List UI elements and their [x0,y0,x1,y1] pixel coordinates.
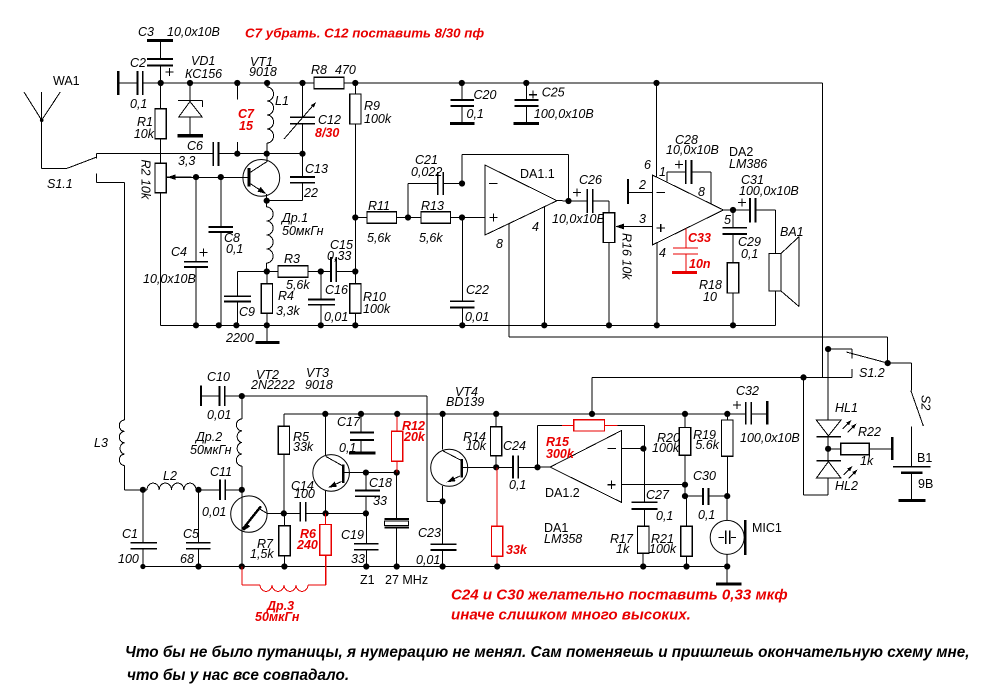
svg-text:100: 100 [294,487,315,501]
svg-text:Что бы не было путаницы, я нум: Что бы не было путаницы, я нумерацию не … [125,644,970,661]
capacitor C25 [525,83,527,122]
potentiometer R16 10k [608,201,610,325]
svg-text:1k: 1k [860,454,874,468]
svg-text:22: 22 [303,186,318,200]
capacitor C23 [442,501,444,566]
junction [264,151,270,157]
junction [653,80,659,86]
svg-text:100k: 100k [652,441,680,455]
junction [352,80,358,86]
wire S2 feed [888,363,912,390]
svg-text:B1: B1 [917,451,932,465]
junction [523,80,529,86]
resistor R9 100k [354,83,356,272]
capacitor C15 0,33 [331,257,336,282]
inductor Dr3 red [242,555,326,591]
junction [640,563,646,569]
svg-text:MIC1: MIC1 [752,521,782,535]
svg-text:VD1: VD1 [191,54,215,68]
junction [352,268,358,274]
junction [264,80,270,86]
LED HL2 arrows [844,468,857,479]
capacitor C24 [496,466,537,468]
svg-text:C12: C12 [318,113,341,127]
svg-text:0,33: 0,33 [327,249,351,263]
capacitor C5 68 [198,490,200,567]
resistor R21 100k [686,496,688,566]
resistor R6 240 red [325,513,327,584]
svg-text:R9: R9 [364,99,380,113]
switch S2 lever [911,390,924,426]
transistor VT2 2N2222 [231,496,267,532]
svg-text:DA1.2: DA1.2 [545,486,580,500]
capacitor C8 [220,177,222,325]
svg-text:иначе слишком много высоких.: иначе слишком много высоких. [451,607,691,624]
capacitor C22 [461,218,463,326]
junction [193,174,199,180]
junction [724,563,730,569]
svg-text:8: 8 [698,185,705,199]
resistor R15 300k red [562,425,617,427]
wire R11 input row y=217 [355,217,485,219]
svg-text:0,01: 0,01 [207,408,231,422]
svg-text:5,6k: 5,6k [367,231,391,245]
svg-text:4: 4 [532,220,539,234]
resistor R7 1,5k [283,513,285,566]
svg-text:10k: 10k [466,439,487,453]
svg-text:C13: C13 [305,162,328,176]
capacitor C31 [750,198,756,223]
junction [589,411,595,417]
svg-text:BA1: BA1 [780,225,804,239]
svg-text:C25: C25 [542,86,565,100]
junction [394,411,400,417]
resistor R17 1k [638,526,649,553]
svg-text:0,1: 0,1 [130,97,147,111]
svg-text:9В: 9В [918,477,933,491]
junction [440,411,446,417]
wire R15 feedback loop [538,426,645,503]
junction [459,180,465,186]
svg-text:C32: C32 [736,384,759,398]
svg-text:HL2: HL2 [835,479,858,493]
resistor R20 100k [684,414,686,485]
svg-text:C6: C6 [187,139,203,153]
junction [440,563,446,569]
junction [239,563,245,569]
capacitor C14 100 [300,502,305,521]
svg-text:3,3: 3,3 [178,154,195,168]
junction [363,470,369,476]
svg-text:что бы у нас все совпадало.: что бы у нас все совпадало. [127,667,349,684]
svg-text:8: 8 [496,237,503,251]
junction [724,411,730,417]
speaker BA1 [769,254,781,292]
capacitor C3 [147,39,173,42]
svg-text:27 MHz: 27 MHz [385,573,428,587]
svg-text:C2: C2 [130,56,146,70]
junction [234,80,240,86]
junction [640,446,646,452]
microphone MIC1 [710,520,744,554]
svg-text:10,0x10В: 10,0x10В [666,143,719,157]
svg-text:3: 3 [639,212,646,226]
junction [565,198,571,204]
svg-text:C24: C24 [503,439,526,453]
inductor Dr1 choke [267,201,273,272]
svg-text:9018: 9018 [249,65,277,79]
resistor R8 470 [314,77,344,88]
junction [682,411,688,417]
svg-text:R22: R22 [858,425,881,439]
svg-text:50мкГн: 50мкГн [190,443,232,457]
wire R2 wiper to VT1 base [167,176,230,178]
variable capacitor C12 [302,83,304,154]
svg-text:9018: 9018 [305,378,333,392]
junction [158,80,164,86]
transistor VT1 9018 [243,160,280,197]
svg-text:10,0x10В: 10,0x10В [552,212,605,226]
junction [825,346,831,352]
svg-text:DA1.1: DA1.1 [520,167,555,181]
svg-text:S1.1: S1.1 [47,177,73,191]
wire emitter row y=513 [278,512,366,514]
inductor L2 [143,483,199,490]
wire top rail y=83 [161,83,823,377]
inductor L1 [267,83,273,154]
wire y=271 row [267,271,356,273]
svg-text:10,0x10В: 10,0x10В [167,25,220,39]
capacitor C32 [727,413,746,415]
svg-text:КС156: КС156 [185,67,222,81]
capacitor C27 [644,509,646,526]
svg-text:0,1: 0,1 [698,508,715,522]
svg-text:100,0x10В: 100,0x10В [534,107,594,121]
junction [264,268,270,274]
svg-text:R16 10k: R16 10k [620,233,634,280]
capacitor C21 0,022 [408,184,462,218]
capacitor C2 [117,71,119,95]
svg-text:C3: C3 [138,25,154,39]
svg-text:C11: C11 [210,465,232,479]
junction [405,214,411,220]
svg-text:L1: L1 [275,94,289,108]
junction [730,322,736,328]
svg-text:R11: R11 [368,199,390,213]
svg-text:50мкГн: 50мкГн [255,610,300,624]
junction [825,446,831,452]
resistor R11 5,6k [367,212,397,223]
svg-text:100k: 100k [364,112,392,126]
junction [140,564,145,569]
svg-text:S1.2: S1.2 [859,366,885,380]
svg-text:6: 6 [644,158,651,172]
resistor R5 33k [283,414,285,514]
svg-text:L3: L3 [94,436,108,450]
svg-text:33: 33 [373,494,387,508]
junction [459,214,465,220]
svg-text:0,01: 0,01 [324,310,348,324]
junction [800,374,806,380]
wire DA2 pin2 input bar [627,179,629,204]
junction [459,80,465,86]
wire HL1 to node [827,437,829,461]
svg-text:C27: C27 [646,488,670,502]
junction [140,487,146,493]
svg-text:100: 100 [118,552,139,566]
junction [683,563,689,569]
svg-text:Z1: Z1 [360,573,375,587]
svg-text:C9: C9 [239,305,255,319]
junction [218,174,224,180]
wire ground rail 2 y=566 [143,566,727,568]
capacitor C4 [195,177,197,325]
svg-text:0,1: 0,1 [509,478,526,492]
svg-text:R3: R3 [284,252,300,266]
wire supply row y=414 [284,413,746,415]
junction [193,322,199,328]
junction [216,322,222,328]
resistor R3 5,6k [278,266,308,277]
junction [299,151,305,157]
junction [281,563,287,569]
resistor 33k red unnumbered [496,467,498,566]
junction [358,411,364,417]
svg-text:0,022: 0,022 [411,165,442,179]
svg-text:2: 2 [638,178,646,192]
svg-text:0,1: 0,1 [339,441,356,455]
junction [323,510,329,516]
svg-text:C26: C26 [579,173,602,187]
capacitor C10 [200,386,202,406]
wire DA2 pin3 input [617,226,652,228]
capacitor C9 2200 [238,272,267,326]
svg-text:10k: 10k [134,127,155,141]
svg-text:LM358: LM358 [544,532,582,546]
svg-text:240: 240 [296,538,318,552]
crystal Z1 27MHz [396,473,398,567]
wire DA1.1 pin8 supply line [509,224,887,364]
junction [233,322,239,328]
svg-text:68: 68 [180,552,194,566]
LED HL1 [827,349,829,420]
junction [187,80,193,86]
svg-text:8/30: 8/30 [315,126,339,140]
svg-text:С7 убрать. С12 поставить 8/30: С7 убрать. С12 поставить 8/30 пф [245,26,484,41]
antenna WA1 [24,92,60,168]
junction [281,510,287,516]
resistor R1 10k [160,83,162,163]
junction [322,411,328,417]
svg-text:10: 10 [703,290,717,304]
capacitor C1 100 [142,490,144,567]
svg-text:R13: R13 [421,199,444,213]
resistor R14 10k [495,414,497,467]
capacitor C28 gain [667,172,711,204]
wire R20 column to C30 node [684,485,686,496]
wire DA1.1 feedback loop [462,154,569,201]
wire DA1.1 pin4 [543,207,545,325]
svg-text:15: 15 [239,119,254,133]
wire DA1.2 inverting input [622,448,644,450]
junction [682,493,688,499]
ground symbol at C9 [266,325,268,342]
junction [682,482,688,488]
svg-text:100k: 100k [363,302,391,316]
capacitor C16 [320,272,322,326]
transistor VT3 9018 [313,455,350,492]
junction [534,464,540,470]
wire DA2 output node [723,209,750,211]
svg-text:0,1: 0,1 [467,107,484,121]
junction [394,470,400,476]
svg-text:33: 33 [351,552,365,566]
svg-text:1k: 1k [616,542,630,556]
junction [885,360,891,366]
svg-text:C5: C5 [183,527,199,541]
svg-text:Др.2: Др.2 [194,430,222,444]
op-amp DA2 LM386 [652,175,723,245]
svg-text:C22: C22 [466,283,489,297]
svg-text:10,0x10В: 10,0x10В [143,272,196,286]
transistor VT4 BD139 [431,449,468,486]
svg-text:0,1: 0,1 [741,247,758,261]
zener diode VD1 KC156 [178,83,203,136]
op-amp DA1.2 mirrored [550,430,622,502]
svg-text:С24 и С30 желательно поставить: С24 и С30 желательно поставить 0,33 мкф [451,587,788,604]
junction [654,322,660,328]
junction [494,563,500,569]
inductor L3 [119,420,143,490]
svg-text:C16: C16 [325,283,348,297]
junction [459,322,465,328]
svg-text:10n: 10n [689,257,711,271]
svg-text:C20: C20 [474,88,497,102]
svg-text:2N2222: 2N2222 [250,378,295,392]
wire VT3 base row [366,472,397,474]
junction [318,322,324,328]
wire DA1.2 noninverting input row [622,484,685,486]
svg-text:33k: 33k [293,440,314,454]
svg-text:C17: C17 [337,415,361,429]
svg-text:470: 470 [335,63,356,77]
resistor R19 5.6k [726,414,728,496]
capacitor C11 [199,489,242,491]
switch S1.2 lever [847,352,888,363]
svg-text:R2 10k: R2 10k [139,160,153,200]
capacitor C17 [360,414,362,453]
resistor R22 1k [828,448,841,450]
wire DA2 pin4 [656,243,658,325]
wire S1.2 lower contact column [591,377,593,414]
junction [352,214,358,220]
wire ground rail y=325 [161,324,776,326]
resistor R4 3,3k [266,272,268,326]
svg-text:100,0x10В: 100,0x10В [739,184,799,198]
svg-text:C18: C18 [369,476,392,490]
junction [493,464,499,470]
capacitor C19 33 [365,513,367,566]
junction [318,268,324,274]
junction [195,487,201,493]
svg-text:1: 1 [659,165,666,179]
svg-text:C19: C19 [341,528,364,542]
capacitor C26 [587,189,593,213]
svg-text:5.6k: 5.6k [695,438,719,452]
resistor R10 100k [354,272,356,326]
svg-text:50мкГн: 50мкГн [282,224,324,238]
svg-text:C33: C33 [688,231,711,245]
resistor R12 20k red [396,414,398,473]
junction [606,322,612,328]
svg-text:C23: C23 [418,526,441,540]
svg-text:R8: R8 [311,63,327,77]
svg-text:WA1: WA1 [53,74,80,88]
svg-text:LM386: LM386 [729,157,767,171]
capacitor C6 [213,142,218,166]
wire HL return loop [804,377,829,495]
switch S1.2 upper contact wire [828,349,852,359]
svg-text:BD139: BD139 [446,395,484,409]
svg-text:5: 5 [724,213,731,227]
wire DA1.2 output [538,466,551,468]
op-amp DA1.1 [485,165,557,235]
svg-text:C30: C30 [693,469,716,483]
svg-text:0,01: 0,01 [416,553,440,567]
switch S1.2 lower contact [592,369,852,377]
svg-text:R4: R4 [278,289,294,303]
junction [239,487,245,493]
svg-text:2200: 2200 [225,331,254,345]
svg-text:33k: 33k [506,543,528,557]
VT1 emitter node [264,198,270,204]
junction [264,322,270,328]
ground symbol at MIC1 [726,567,728,585]
capacitor C20 [461,83,463,122]
capacitor C33 red [673,229,698,273]
resistor R13 5,6k [421,212,451,223]
svg-text:100,0x10В: 100,0x10В [740,431,800,445]
capacitor C7 removed - stubs only [236,83,238,154]
junction [363,510,369,516]
svg-text:0,01: 0,01 [202,505,226,519]
LED HL1 arrows [843,422,856,433]
wire DA1.1 output [557,200,587,202]
svg-text:Др.1: Др.1 [280,211,308,225]
svg-text:20k: 20k [403,430,426,444]
junction [352,322,358,328]
junction [730,207,736,213]
junction [440,498,446,504]
potentiometer R2 10k [155,163,166,192]
svg-text:C10: C10 [207,370,230,384]
svg-text:0,1: 0,1 [656,509,673,523]
junction [234,151,240,157]
svg-text:L2: L2 [163,469,177,483]
switch S1.1 [42,154,125,183]
junction [493,411,499,417]
inductor Dr2 choke [236,396,241,490]
wire left column to L3 [124,182,126,420]
resistor R18 10 [727,263,738,293]
svg-text:HL1: HL1 [835,401,858,415]
svg-text:C4: C4 [171,245,187,259]
svg-text:4: 4 [659,246,666,260]
wire C10 line to VT4 emitter [242,396,443,501]
junction [195,563,201,569]
svg-text:5,6k: 5,6k [419,231,443,245]
svg-text:100k: 100k [649,542,677,556]
